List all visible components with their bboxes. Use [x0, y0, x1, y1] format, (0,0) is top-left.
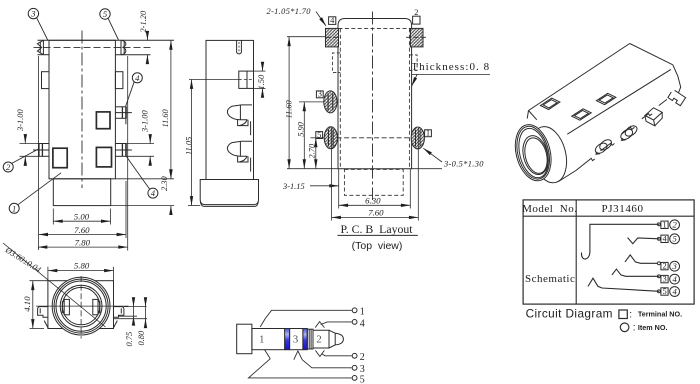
pad top-right hatched [410, 28, 423, 47]
svg-text:1: 1 [663, 220, 667, 229]
ring 5 [62, 287, 99, 324]
svg-text:5: 5 [672, 234, 677, 244]
svg-text:3: 3 [293, 333, 299, 345]
svg-text:Ø3.60±0.04: Ø3.60±0.04 [3, 245, 43, 274]
svg-text:4.10: 4.10 [22, 296, 32, 312]
svg-text:7.60: 7.60 [74, 225, 90, 235]
lower extension block [53, 179, 110, 206]
inner contact left [62, 299, 69, 314]
terminal square 2 [661, 262, 668, 269]
svg-text:11.05: 11.05 [185, 137, 194, 155]
small box with divider [239, 71, 254, 88]
svg-text:5.00: 5.00 [74, 212, 90, 222]
ext line pad center mid [299, 101, 324, 103]
shield box bump [645, 108, 662, 120]
label 3-1.15 [282, 182, 339, 191]
item circle 2 [670, 220, 680, 230]
svg-text:0.75: 0.75 [125, 332, 134, 347]
svg-text:5: 5 [360, 374, 365, 384]
leader 4 [321, 322, 352, 325]
loop clip 2 [619, 124, 639, 142]
item circle 4b [670, 287, 680, 297]
body outline [206, 40, 254, 179]
schematic row2: terminal 4 wire with check contact [628, 237, 661, 243]
label thickness [411, 61, 490, 86]
top-left silhouette edge [529, 44, 630, 111]
horizontal dashed centerline [337, 137, 414, 139]
right clip [121, 40, 126, 54]
dim 0.80 [114, 300, 148, 346]
section 2 [313, 330, 329, 348]
leader 3 [302, 360, 352, 368]
svg-text:5: 5 [103, 9, 108, 19]
svg-text:1.50: 1.50 [257, 74, 266, 89]
inner contact right [93, 299, 100, 314]
svg-text:4: 4 [672, 274, 677, 284]
bottom left edge to barrel [559, 171, 576, 182]
svg-text:1: 1 [259, 333, 265, 345]
front-top edge [567, 69, 671, 134]
dim 2.70 pcb [307, 138, 316, 169]
left pin [33, 144, 49, 157]
terminal square left [53, 148, 67, 168]
bottom ext line left [287, 168, 338, 170]
svg-text:3: 3 [663, 275, 667, 284]
left clip [37, 40, 43, 54]
leader 5 [249, 359, 352, 378]
bezel rim ring 3 [514, 125, 553, 181]
schematic row4: terminal 3 wire with peak contact [612, 269, 661, 278]
svg-text:Schematic: Schematic [525, 273, 575, 285]
left end edge [527, 111, 528, 119]
pad top-left hatched [326, 28, 339, 47]
svg-text:5: 5 [663, 287, 667, 296]
body outline [49, 40, 115, 179]
dashed right step notch [409, 55, 417, 71]
dim 7.60 [39, 56, 126, 250]
terminal square 2 [413, 16, 420, 24]
item circle 3 [670, 261, 680, 271]
svg-text:2: 2 [6, 162, 11, 172]
dashed left step notch [332, 53, 340, 73]
item circle 4 [670, 274, 680, 284]
dim 2-1.20 [139, 10, 148, 62]
svg-text:3-1.00: 3-1.00 [141, 110, 150, 133]
right end top edge [673, 65, 681, 93]
slash marks [260, 319, 265, 327]
dashed lower block [344, 170, 403, 196]
svg-text:4: 4 [360, 318, 365, 329]
schematic row1: terminal 1 wire [582, 223, 661, 259]
dim 2.30 [111, 172, 174, 214]
svg-text:PJ31460: PJ31460 [602, 203, 644, 215]
terminal square lower right [96, 147, 111, 167]
oval pad upper-left [324, 91, 337, 113]
svg-text:Terminal NO.: Terminal NO. [638, 310, 682, 319]
dim 11.60 view1 [115, 40, 174, 179]
ext line pad center low [311, 137, 325, 139]
svg-text:0.80: 0.80 [137, 330, 146, 345]
loop clip 1 [593, 138, 613, 156]
dim 1.50 [254, 64, 266, 97]
dim 5.00 [53, 209, 110, 225]
oval pad lower-left [324, 127, 337, 149]
schematic row3: terminal 2 wire with peak contact [625, 255, 660, 265]
right leg [114, 307, 124, 318]
ring 2 [54, 279, 108, 333]
svg-text:Circuit Diagram: Circuit Diagram [526, 307, 613, 321]
section 3 [290, 329, 303, 350]
white mask circle [52, 277, 110, 335]
dim 3-1.00 right [127, 110, 154, 166]
svg-text:5.80: 5.80 [74, 261, 90, 271]
svg-text:4: 4 [135, 73, 140, 83]
back-right top edge [630, 44, 673, 65]
svg-text:6.30: 6.30 [365, 195, 381, 205]
base bottom line [204, 205, 255, 207]
terminal square 5 [661, 288, 668, 295]
oval pad right [411, 127, 424, 149]
bezel rim ring 2 [512, 123, 555, 183]
svg-text:1: 1 [12, 203, 16, 213]
terminal square 3 [661, 275, 668, 282]
vertical dash-dot centerline [81, 31, 83, 189]
dim 7.60 pcb [332, 128, 419, 221]
barrel opening inner [521, 135, 550, 175]
top slot [237, 40, 242, 54]
right pin lower [115, 144, 131, 157]
vertical dash-dot centerline [372, 12, 374, 201]
svg-text:P. C. B Layout: P. C. B Layout [340, 222, 413, 236]
label 2-1.05*1.70 [267, 7, 327, 26]
horizontal centerline [36, 305, 129, 307]
balloon 2 [3, 162, 13, 172]
right pin upper [115, 107, 131, 124]
blue band 2 [303, 329, 307, 350]
dim 11.60 pcb [284, 37, 293, 169]
svg-text:3: 3 [671, 261, 676, 271]
svg-text:2: 2 [414, 8, 418, 17]
dim 5.80 [48, 261, 114, 281]
right bump [115, 72, 123, 89]
bottom ext line right [412, 168, 442, 170]
dashed inner outline right [408, 28, 410, 168]
diameter leader diagonal [3, 243, 106, 327]
long reference line [189, 79, 239, 81]
terminal square 4 [329, 17, 336, 25]
svg-text:2: 2 [360, 352, 365, 363]
left leg [38, 307, 48, 318]
svg-text:1: 1 [426, 129, 430, 138]
svg-text:3-1.15: 3-1.15 [282, 182, 305, 191]
base block [200, 180, 258, 205]
dashed top line [339, 27, 411, 29]
svg-text:2-1.05*1.70: 2-1.05*1.70 [267, 7, 312, 16]
leader 2 [322, 354, 352, 356]
svg-text::: : [629, 310, 632, 321]
item circle 5 [670, 234, 680, 244]
svg-text:7.80: 7.80 [75, 237, 91, 247]
terminal square 1 [425, 130, 432, 137]
ring 1 [52, 277, 110, 335]
ring 3 [56, 281, 106, 331]
tip [329, 330, 343, 348]
vertical centerline [80, 276, 82, 339]
dim 6.30 [339, 169, 411, 209]
flange bottom line left [38, 54, 50, 56]
leader 1 [265, 310, 352, 318]
table frame [523, 200, 694, 304]
label 3-0.5*1.30 [423, 148, 484, 168]
flange bottom line right [115, 54, 150, 56]
upper contact [227, 105, 252, 135]
right end clip [668, 90, 686, 105]
svg-text:Item NO.: Item NO. [638, 323, 668, 332]
terminal square upper right [96, 112, 110, 129]
svg-text:2-1.20: 2-1.20 [139, 10, 148, 32]
balloon 1 [9, 203, 19, 213]
dim 4.10 [22, 281, 48, 329]
ext line pad center top [287, 36, 326, 38]
svg-text:(Top view): (Top view) [352, 240, 403, 252]
svg-text:3: 3 [318, 90, 322, 99]
svg-text:1: 1 [360, 307, 365, 318]
svg-text:2.70: 2.70 [307, 143, 316, 158]
handle [237, 324, 252, 354]
ring 4 [60, 285, 102, 327]
blue band 1 [285, 329, 290, 350]
flange top line [38, 39, 175, 41]
svg-text:3-0.5*1.30: 3-0.5*1.30 [443, 159, 484, 168]
balloon 4 lower [148, 188, 158, 198]
svg-text:4: 4 [672, 286, 677, 296]
bezel band (rear ellipse of cylinder) [525, 123, 572, 187]
svg-text::: : [633, 323, 636, 334]
svg-text:2.30: 2.30 [160, 176, 169, 191]
body rect [48, 281, 114, 329]
balloon 4 upper [132, 73, 142, 83]
svg-text:4: 4 [151, 188, 156, 198]
svg-text:2: 2 [316, 333, 322, 345]
balloon 3 [28, 8, 38, 18]
top slot 2 [572, 109, 592, 120]
svg-text:3: 3 [30, 9, 35, 19]
dashed inner outline left [339, 28, 341, 168]
dim 3-1.00 left [16, 109, 38, 166]
dim 7.80 [38, 56, 128, 251]
left end to bezel edge [529, 111, 537, 120]
schematic row5: terminal 5 wire with big peak contact [588, 278, 660, 293]
terminal square 3 [316, 91, 323, 98]
dim 0.75 [119, 300, 147, 347]
terminal square 5 [316, 132, 323, 139]
solid outline [338, 19, 412, 169]
horizontal dashed centerline [34, 46, 151, 48]
barrel opening outer [519, 133, 552, 177]
svg-text:Thickness:0. 8: Thickness:0. 8 [411, 61, 490, 73]
terminal square 1 [661, 221, 668, 228]
bezel rim face (masks band left part) [510, 121, 557, 185]
svg-text:Model No.: Model No. [522, 203, 577, 215]
top slot 3 [596, 93, 616, 104]
balloon 5 [100, 9, 110, 19]
top slot 1 [540, 98, 560, 109]
ring grooves [307, 329, 313, 349]
svg-text:11.60: 11.60 [161, 108, 170, 127]
terminal square 4 [661, 235, 668, 242]
dim 11.05 view2 [185, 80, 201, 206]
svg-text:4: 4 [330, 16, 335, 25]
left bump [42, 72, 50, 89]
shaft section 1 [252, 329, 285, 350]
lower contact [227, 141, 252, 171]
bottom staircase edge segments [576, 158, 595, 170]
svg-text:3-1.00: 3-1.00 [16, 109, 25, 132]
dim 5.90 pcb [296, 102, 305, 169]
svg-text:2: 2 [672, 220, 677, 230]
svg-text:7.60: 7.60 [368, 208, 384, 218]
svg-text:2: 2 [663, 262, 667, 271]
